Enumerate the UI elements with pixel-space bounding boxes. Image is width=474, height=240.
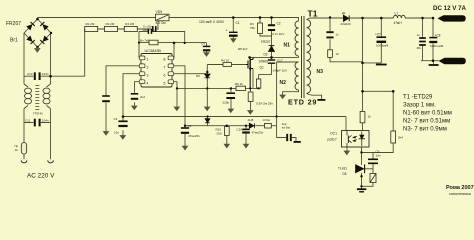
svg-text:FR207: FR207 xyxy=(261,40,271,44)
wire: R10 stub xyxy=(226,126,228,145)
svg-text:4,7n 1KV: 4,7n 1KV xyxy=(272,32,284,36)
svg-text:R9 1k: R9 1k xyxy=(235,82,243,86)
svg-text:+C7: +C7 xyxy=(375,32,381,36)
output terminal plus xyxy=(438,15,466,21)
wire: pin7 VCC to row xyxy=(172,66,185,126)
svg-text:6: 6 xyxy=(164,73,166,77)
svg-text:1000 мкФ: 1000 мкФ xyxy=(430,44,444,48)
svg-text:1k: 1k xyxy=(368,115,372,119)
row jumper diode xyxy=(205,119,210,123)
capacitor C16 aux xyxy=(242,129,250,132)
winding N3 xyxy=(307,20,311,94)
MOSFET Q1 xyxy=(246,57,253,88)
wire: pin8 vertical xyxy=(172,43,174,58)
svg-text:C8: C8 xyxy=(153,28,157,32)
svg-text:pc817: pc817 xyxy=(328,138,337,142)
annotation text block T1 xyxy=(403,95,452,133)
trimmer R15 xyxy=(370,174,376,183)
svg-text:1000мкФ: 1000мкФ xyxy=(376,44,389,48)
output film capacitor xyxy=(419,38,426,45)
svg-text:N2: N2 xyxy=(280,80,287,86)
wire: cap A bottom to ground xyxy=(105,103,107,132)
capacitor CA aux xyxy=(102,96,110,101)
IC pins left xyxy=(139,56,173,84)
wire: N3 bottom lead xyxy=(307,94,322,100)
svg-text:схемотехника: схемотехника xyxy=(449,192,471,196)
AC terminal left xyxy=(21,160,27,163)
svg-text:C4: C4 xyxy=(201,41,205,45)
svg-text:4148: 4148 xyxy=(248,118,254,122)
wire: C8out stubs xyxy=(432,18,434,61)
ground arrow opto xyxy=(344,151,349,155)
svg-text:4,3 Ом: 4,3 Ом xyxy=(156,21,166,25)
svg-text:7: 7 xyxy=(164,65,166,69)
diode bottom-left xyxy=(26,36,34,44)
diode D2 xyxy=(269,46,275,52)
capacitor C10 (X-cap) xyxy=(35,72,40,80)
svg-text:N1-60 вит 0.51мм: N1-60 вит 0.51мм xyxy=(403,111,452,117)
diode top-right xyxy=(40,22,48,30)
fusible resistor VD5 on rail xyxy=(156,14,170,21)
svg-text:N3- 7 вит 0.9мм: N3- 7 вит 0.9мм xyxy=(403,127,447,133)
wire: primary top rail VD5 to C1 to transformer xyxy=(169,18,299,22)
opto internals xyxy=(347,131,365,147)
svg-text:T1: T1 xyxy=(308,9,318,19)
capacitor C17 xyxy=(268,60,275,63)
wire: N3 top lead xyxy=(307,18,344,20)
svg-text:N3: N3 xyxy=(317,69,324,75)
wire: C3 bottom xyxy=(122,130,124,135)
svg-text:C17: C17 xyxy=(277,59,283,63)
svg-text:на 3кв: на 3кв xyxy=(282,126,291,130)
ground arrow below capB xyxy=(132,106,137,110)
wire: Y-cap C12 leads xyxy=(277,126,296,141)
wire: minus terminal wire xyxy=(421,60,439,62)
svg-text:C5: C5 xyxy=(188,124,192,128)
svg-text:C10: C10 xyxy=(27,72,33,76)
wire: pin3 to C3 node xyxy=(123,74,141,121)
svg-text:2n2: 2n2 xyxy=(140,95,145,99)
ground arrow 220p xyxy=(228,109,233,113)
wire: cap B bottom xyxy=(134,102,136,106)
wire: N2 bottom lead xyxy=(283,90,299,95)
svg-text:D2: D2 xyxy=(264,52,268,56)
resistor R11 opto feed xyxy=(360,112,365,123)
bridge rectifier Br1 xyxy=(24,19,51,47)
svg-text:10N60: 10N60 xyxy=(259,60,269,64)
resistor R5 source loop xyxy=(256,79,260,88)
svg-text:0,39 Ом 2Вт: 0,39 Ом 2Вт xyxy=(256,102,273,106)
startup resistors R2 R3 R4 row xyxy=(85,26,138,31)
ground arrow R10 xyxy=(224,144,229,148)
fuse xyxy=(21,143,26,155)
wire: output film cap stubs xyxy=(422,18,424,61)
svg-text:ТПП-40: ТПП-40 xyxy=(33,112,43,116)
svg-text:220p: 220p xyxy=(223,100,230,104)
wire: C8 comp row xyxy=(139,32,185,44)
svg-text:10 Ом: 10 Ом xyxy=(263,118,271,122)
wire: C9 chain xyxy=(362,153,374,187)
winding N1 xyxy=(295,21,298,56)
capacitor C9 xyxy=(368,159,378,163)
wire: startup resistor row xyxy=(98,21,158,29)
resistor R4 gate xyxy=(223,63,232,67)
wire: TL431 anode to ground xyxy=(361,173,363,189)
ground arrow Rsense xyxy=(248,111,253,115)
inductor L1 xyxy=(394,15,406,18)
svg-text:C2: C2 xyxy=(277,21,281,25)
wire: opto transistor bottom ground xyxy=(346,147,348,151)
wire: X-cap row C11 xyxy=(24,122,51,124)
svg-text:TL431: TL431 xyxy=(338,166,347,170)
secondary snubber cap C13 xyxy=(326,32,333,37)
svg-text:VD5: VD5 xyxy=(156,10,163,14)
svg-text:Br1: Br1 xyxy=(10,38,18,44)
wire: gate diode stub xyxy=(206,72,208,88)
wire: pin6 OUT to gate xyxy=(172,65,246,74)
ground arrow below C4 xyxy=(204,53,209,57)
svg-text:20Н100: 20Н100 xyxy=(341,22,352,26)
svg-text:ETD 29: ETD 29 xyxy=(288,98,317,107)
svg-text:4: 4 xyxy=(147,81,149,85)
svg-text:C3: C3 xyxy=(114,117,118,121)
wire: C5 stub xyxy=(184,126,186,147)
wire: snubber C2 top xyxy=(271,18,273,25)
wire: N2 top lead xyxy=(277,62,299,126)
svg-text:+: + xyxy=(226,29,228,33)
svg-text:R8 4k7: R8 4k7 xyxy=(238,47,248,51)
wire: primary top rail left of VD5 xyxy=(38,17,156,19)
svg-text:8: 8 xyxy=(164,58,166,62)
svg-text:1A: 1A xyxy=(15,148,19,152)
wire: opto LED side down to TL431 xyxy=(361,147,363,165)
ground arrow gate diode xyxy=(205,107,210,111)
wire: snubber R3 top xyxy=(260,18,272,37)
wire: bridge left AC leg down xyxy=(23,33,25,159)
wire: N1 bottom xyxy=(298,56,300,57)
resistor R12 aux xyxy=(265,123,272,128)
svg-text:100 мкФ Х 400V: 100 мкФ Х 400V xyxy=(199,20,225,24)
svg-text:47мx25v: 47мx25v xyxy=(188,134,200,138)
wire: mosfet source xyxy=(252,69,254,89)
svg-text:Д1: Д1 xyxy=(342,11,346,15)
svg-text:R4 10: R4 10 xyxy=(221,58,229,62)
wire: startup chain left vertical xyxy=(84,29,86,76)
capacitor C6 on startup row xyxy=(153,26,156,32)
IC U1 UC3843B xyxy=(141,54,172,88)
svg-text:2: 2 xyxy=(147,65,149,69)
wire: C7 lower stub to ground vertical xyxy=(363,62,382,64)
resistor R9 xyxy=(236,86,246,90)
resistor R7 comp xyxy=(149,40,158,45)
wire: C2 bottom to D2 xyxy=(271,31,273,46)
resistor R10 xyxy=(224,127,229,136)
common mode choke xyxy=(24,84,51,110)
resistor R3 snubber xyxy=(258,23,263,34)
capacitor CB pin4 xyxy=(131,94,138,99)
svg-text:R2 2M: R2 2M xyxy=(86,22,95,26)
capacitor C3 at pin2 node xyxy=(118,121,127,126)
capacitor C4 xyxy=(203,46,210,50)
wire: pin5 ground xyxy=(172,82,177,89)
ground arrow below bridge xyxy=(35,47,40,52)
svg-text:N2- 7 вит 0.51мм: N2- 7 вит 0.51мм xyxy=(403,119,450,125)
ground arrow C16 xyxy=(243,144,248,148)
svg-text:Вч 7к5: Вч 7к5 xyxy=(140,38,149,42)
svg-text:D6: D6 xyxy=(343,172,347,176)
wire: gate diode2 stub x207 arrow xyxy=(206,88,208,107)
wire: vertical +12 to opto feed xyxy=(362,18,364,131)
capacitor C8 comp xyxy=(148,29,151,34)
wire: secondary rail after L1 xyxy=(405,17,433,19)
svg-text:1н: 1н xyxy=(417,33,421,37)
svg-text:D5: D5 xyxy=(196,74,200,78)
svg-text:104n: 104n xyxy=(42,119,49,123)
wire: aux row xyxy=(185,125,277,127)
svg-text:10: 10 xyxy=(336,52,340,56)
pin numbers xyxy=(147,58,166,86)
ground arrow below C3 xyxy=(120,136,125,140)
svg-text:C11: C11 xyxy=(25,119,31,123)
wire: R7 comp row xyxy=(139,42,207,44)
svg-text:48v: 48v xyxy=(417,46,422,50)
svg-text:AC 220 V: AC 220 V xyxy=(27,173,55,180)
wire: C7 stubs xyxy=(380,18,382,63)
svg-text:47мH: 47мH xyxy=(394,21,403,25)
ground bars TL431 xyxy=(357,189,366,192)
wire: D2 bottom xyxy=(271,52,273,58)
svg-text:3: 3 xyxy=(147,73,149,77)
svg-text:Q1: Q1 xyxy=(260,65,264,69)
svg-text:C1: C1 xyxy=(236,21,240,25)
wire: bridge right AC leg down xyxy=(50,33,52,159)
wire: secondary snubber chain xyxy=(330,18,363,62)
capacitor C2 snubber xyxy=(268,25,275,30)
wire: X-cap junction to startup chain xyxy=(51,75,85,77)
svg-text:140pF 1kV: 140pF 1kV xyxy=(273,69,288,73)
capacitor C11 (X-cap 2) xyxy=(35,119,40,127)
capacitor C5 aux xyxy=(181,128,189,133)
wire: pin2 FB to capA chain xyxy=(106,66,141,96)
svg-text:N1: N1 xyxy=(284,42,291,48)
capacitor C8 output xyxy=(429,38,437,42)
svg-text:DC 12 V 7A: DC 12 V 7A xyxy=(433,5,467,12)
svg-text:104n: 104n xyxy=(42,72,49,76)
svg-text:T1 -ETD29: T1 -ETD29 xyxy=(403,95,433,101)
wire: C1 leads xyxy=(232,18,234,39)
ground arrow below capA xyxy=(103,132,108,136)
TL431 D6 xyxy=(356,164,365,173)
transformer T1 core xyxy=(302,16,305,98)
wire: CS row xyxy=(177,87,259,89)
svg-text:Рома 2007: Рома 2007 xyxy=(446,185,474,191)
Y-capacitor C12 xyxy=(287,134,291,141)
wire: Rsense stubs xyxy=(250,88,252,110)
svg-text:OC1: OC1 xyxy=(330,131,337,135)
wire: C17 stubs xyxy=(259,57,272,88)
ground arrow N2 bottom xyxy=(280,95,285,99)
svg-text:FR207: FR207 xyxy=(6,21,21,27)
svg-text:UC3843B: UC3843B xyxy=(145,49,162,53)
bridge vertex dots xyxy=(36,18,52,49)
svg-text:5: 5 xyxy=(164,81,166,85)
svg-text:200p: 200p xyxy=(143,28,150,32)
winding N2 xyxy=(295,62,298,90)
svg-text:1n: 1n xyxy=(336,33,340,37)
wire: opto transistor top xyxy=(345,117,347,131)
diode D5 gate xyxy=(205,74,211,78)
svg-text:47мx25v: 47мx25v xyxy=(252,131,264,135)
wire: pin5 ground arrow stub xyxy=(176,88,178,107)
wire: pin4 stub xyxy=(135,82,142,93)
wire: TL431 ref link xyxy=(365,168,373,170)
svg-text:75k: 75k xyxy=(250,26,255,30)
svg-text:10n: 10n xyxy=(114,131,119,135)
capacitor C7 output xyxy=(377,37,387,42)
wire: row jumper cap stubs xyxy=(207,117,209,126)
svg-text:200: 200 xyxy=(217,132,222,136)
svg-text:R3 2M: R3 2M xyxy=(106,22,115,26)
wire: divider R14 vertical xyxy=(373,91,393,152)
ground bar below C8out xyxy=(429,64,439,66)
capacitor C1 bulk xyxy=(229,32,238,35)
ground bar below C7 xyxy=(376,64,387,66)
secondary diode D7 xyxy=(344,15,350,21)
wire: X-cap row C10 xyxy=(24,75,51,77)
wire: ground bar stub C8out xyxy=(433,61,435,64)
svg-text:L1: L1 xyxy=(395,11,399,15)
svg-text:R4 2M: R4 2M xyxy=(125,22,134,26)
wire: node row at 105.6 to aux row xyxy=(123,116,346,118)
wire: N3 bottom + return rail xyxy=(363,90,395,92)
optocoupler OC1 xyxy=(342,131,370,148)
ground arrow C5 xyxy=(182,146,187,150)
wire: C4 leads xyxy=(206,43,208,53)
aux diode D4 row B xyxy=(249,123,254,128)
svg-text:C16: C16 xyxy=(237,127,243,131)
wire: drain node rail xyxy=(250,57,299,58)
AC terminal right xyxy=(48,160,54,163)
diode bottom-right xyxy=(40,36,48,44)
resistor R6 sense xyxy=(248,92,253,102)
secondary snubber resistor R13 xyxy=(328,50,333,58)
output terminal minus xyxy=(439,58,466,64)
svg-text:+C8: +C8 xyxy=(435,33,441,37)
svg-text:1: 1 xyxy=(147,58,149,62)
ground arrow below C1 xyxy=(231,39,236,43)
svg-text:10n: 10n xyxy=(376,154,381,158)
wire: 220p stub xyxy=(230,88,232,109)
capacitor 220p xyxy=(226,93,235,98)
wire: comp network verticals pin1 xyxy=(139,32,141,58)
ground bar Y-cap xyxy=(294,141,301,143)
resistor R14 divider xyxy=(391,131,396,143)
wire: C16 stub xyxy=(245,126,247,145)
svg-text:2k4: 2k4 xyxy=(398,136,403,140)
ground bar N3 bottom lead xyxy=(317,99,325,101)
ground arrow pin5 xyxy=(174,107,179,111)
diode top-left xyxy=(26,22,34,30)
wire: secondary rail diode to L1 xyxy=(350,17,394,19)
svg-text:Зазор 1 мм.: Зазор 1 мм. xyxy=(403,103,436,109)
